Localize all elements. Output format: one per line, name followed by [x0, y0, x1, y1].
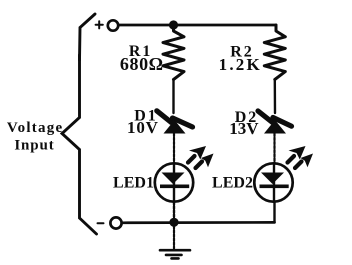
svg-text:LED1: LED1: [113, 175, 154, 192]
plus sign: [96, 21, 103, 28]
label LED1: [113, 175, 154, 192]
LED1: [155, 146, 214, 202]
wire junction to ground: [173, 226, 175, 249]
terminal -: [110, 217, 121, 228]
wire R1 to D1: [172, 80, 174, 114]
label LED2: [212, 175, 253, 192]
ground: [160, 250, 190, 258]
minus sign: [98, 222, 104, 224]
svg-text:Input: Input: [14, 138, 54, 154]
wire LED1 to bottom rail: [173, 202, 175, 222]
wire top rail: [119, 24, 276, 27]
label Voltage Input: [7, 120, 64, 154]
wire D2 to LED2: [273, 134, 275, 164]
node top junction: [169, 20, 178, 29]
wire bottom rail: [122, 221, 275, 224]
label D1 10V: [127, 107, 159, 137]
voltage input brace: [80, 14, 96, 60]
LED2: [254, 146, 313, 202]
node bottom junction: [169, 218, 178, 227]
svg-text:13V: 13V: [229, 119, 259, 138]
label R2 1.2K: [219, 44, 262, 74]
terminal +: [108, 20, 118, 30]
svg-text:680Ω: 680Ω: [120, 54, 164, 74]
zener D1: [157, 111, 193, 134]
svg-text:10V: 10V: [127, 118, 159, 137]
zener D2: [258, 111, 292, 134]
resistor R1: [163, 25, 184, 80]
svg-text:LED2: LED2: [212, 175, 253, 192]
wire R2 to D2: [274, 80, 277, 114]
svg-text:1.2K: 1.2K: [219, 55, 262, 74]
wire D1 to LED1: [173, 134, 175, 164]
label D2 13V: [229, 109, 259, 138]
label R1 680ohm: [120, 43, 164, 74]
wire LED2 to bottom rail: [273, 202, 275, 222]
resistor R2: [264, 25, 285, 80]
svg-text:Voltage: Voltage: [7, 120, 64, 136]
